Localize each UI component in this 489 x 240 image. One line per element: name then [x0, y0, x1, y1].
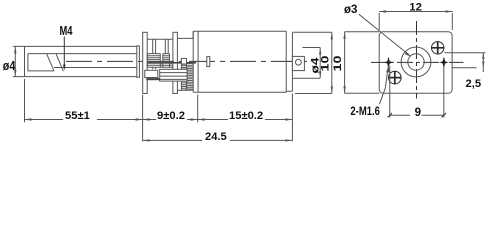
gearbox to motor step top	[177, 31, 193, 38]
gearbox to motor step bottom	[177, 89, 193, 91]
intermediate wide gear	[160, 69, 187, 81]
dimension 12	[379, 12, 453, 31]
svg-text:9±0.2: 9±0.2	[157, 110, 185, 122]
boss outer circle	[401, 47, 431, 77]
end view horizontal centerline	[371, 61, 464, 63]
thread runout diagonal	[56, 54, 63, 71]
svg-text:10: 10	[332, 56, 344, 72]
motor pinion teeth column	[181, 58, 186, 64]
svg-text:ø4: ø4	[3, 59, 16, 73]
dimension 24.5	[143, 94, 293, 142]
gear cluster A teeth	[147, 54, 160, 68]
dimension 9 hole spacing	[390, 66, 444, 118]
dimension 55±1	[25, 79, 143, 122]
case screw top right	[431, 41, 444, 54]
gear hub	[145, 70, 158, 77]
gear shaft 2	[165, 39, 168, 53]
M4 leader	[63, 37, 65, 69]
svg-text:9: 9	[415, 107, 421, 119]
gearbox front plate	[143, 32, 148, 93]
mounting hole marker left	[384, 57, 393, 68]
svg-text:2,5: 2,5	[466, 78, 482, 90]
gear dark bar	[146, 78, 160, 80]
svg-text:55±1: 55±1	[65, 110, 90, 122]
dimension 10 motor height (rotated)	[292, 32, 331, 93]
end view vertical centerline	[416, 21, 418, 99]
end view body	[379, 32, 452, 94]
lead screw body	[25, 46, 137, 76]
dimension 2.5	[445, 53, 486, 72]
dimension 15±0.2	[198, 95, 293, 123]
gear mesh dark line	[147, 62, 196, 64]
gearbox rear plate	[173, 32, 178, 93]
gearbox case top line	[147, 38, 173, 40]
svg-text:M4: M4	[60, 24, 73, 38]
svg-text:15±0.2: 15±0.2	[229, 110, 263, 122]
svg-text:10: 10	[319, 56, 331, 72]
dimension ø4 rear (rotated)	[293, 48, 321, 79]
boss inner circle	[408, 54, 424, 70]
rear boss circle	[296, 59, 302, 65]
svg-text:ø3: ø3	[344, 4, 357, 16]
gear cluster C teeth	[163, 54, 170, 68]
gear shaft 1	[153, 39, 156, 69]
thread chamfer	[28, 54, 54, 71]
2-M1.6 leader	[380, 66, 389, 104]
dimension ø4 (screw diameter)	[13, 46, 25, 76]
screw centerline	[66, 60, 309, 62]
motor brush mark	[207, 57, 210, 67]
pinion gear teeth column 2	[187, 64, 193, 90]
svg-text:24.5: 24.5	[205, 131, 227, 143]
gear tooth rows between clusters	[160, 63, 173, 67]
thread minor diameter bottom line	[54, 67, 137, 69]
collar washer	[137, 46, 140, 77]
svg-text:12: 12	[409, 1, 422, 13]
svg-text:2-M1.6: 2-M1.6	[350, 106, 380, 118]
mounting hole marker right	[439, 57, 448, 68]
motor can	[193, 31, 286, 92]
thread minor diameter top line	[28, 53, 137, 55]
dimension 10 end view height (rotated)	[345, 32, 380, 94]
rear bearing boss	[292, 56, 304, 70]
case screw bottom left	[388, 71, 401, 84]
dimension 9±0.2	[143, 95, 198, 141]
motor front face	[193, 31, 198, 92]
ø3 leader	[359, 14, 407, 53]
motor end cap	[286, 33, 292, 92]
